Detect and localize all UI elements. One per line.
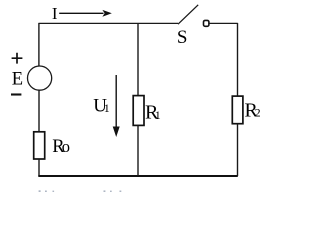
resistor R0 body (34, 132, 45, 159)
wire middle rail upper (137, 23, 139, 96)
svg-text:E: E (12, 70, 23, 90)
switch S terminal (204, 20, 209, 26)
wire right rail upper (237, 23, 239, 96)
wire left rail middle (38, 90, 40, 132)
wire top rail right segment (209, 22, 238, 24)
svg-text:1: 1 (155, 108, 161, 122)
resistor R1 body (133, 96, 144, 126)
wire bottom rail (38, 175, 238, 177)
switch S blade (178, 5, 198, 24)
cut-off caption fragments (b) (104, 190, 122, 192)
wire right rail lower (237, 124, 239, 176)
source E circle (27, 66, 51, 90)
wire left rail upper (38, 23, 40, 66)
label - polarity (11, 93, 21, 95)
cut-off caption fragments (a) (39, 190, 55, 192)
svg-text:o: o (62, 137, 70, 156)
voltage U1 arrow (115, 75, 117, 128)
wire top rail left segment (39, 22, 179, 24)
svg-text:1: 1 (104, 101, 110, 115)
svg-text:S: S (177, 27, 188, 48)
current I arrow (59, 12, 103, 14)
wire middle rail lower (137, 125, 139, 176)
resistor R2 body (232, 96, 243, 124)
wire left rail lower (38, 159, 40, 176)
label + polarity (12, 53, 23, 64)
svg-text:2: 2 (255, 106, 261, 120)
svg-text:I: I (52, 4, 58, 23)
